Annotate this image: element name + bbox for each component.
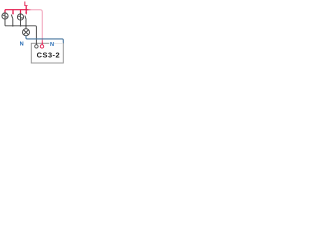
svg-text:CS3-2: CS3-2 bbox=[37, 51, 60, 60]
svg-text:N: N bbox=[50, 42, 54, 48]
svg-text:L: L bbox=[24, 1, 28, 8]
svg-text:N: N bbox=[20, 42, 24, 48]
